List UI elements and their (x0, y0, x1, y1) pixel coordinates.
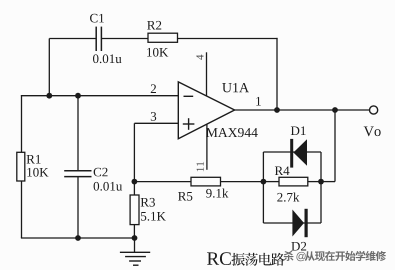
wire: R2 to feedback corner (178, 38, 278, 40)
resistor R2 (148, 33, 178, 42)
op-amp inverting (-) mark (184, 95, 194, 97)
resistor R5 (191, 177, 221, 186)
wire: node to R5 (134, 181, 191, 183)
ground (134, 238, 136, 252)
pin 4 number (rotated) (196, 55, 203, 60)
junction dot: top drop / pin2 net (46, 93, 52, 99)
wire: connector vertical to output net (334, 110, 336, 182)
wire: left vertical drop from top wire (48, 39, 50, 96)
watermark: @ (296, 252, 305, 261)
wire: R4 to loop right (308, 181, 321, 183)
resistor R1 (17, 152, 25, 181)
wire: loop right vertical (320, 152, 322, 223)
resistor R3 (130, 195, 139, 225)
watermark: 杀 (284, 251, 294, 261)
wire: output net to Vo terminal (235, 109, 370, 111)
junction dot: output / loop connector (332, 107, 338, 113)
wire: loop middle left to R4 (263, 181, 279, 183)
wire: bottom rail (21, 237, 135, 239)
wire: C2 branch lower (77, 177, 79, 238)
diode D2 (292, 210, 304, 237)
wire: R5 to loop left node (221, 181, 264, 183)
wire: R3 bottom to ground node (133, 225, 135, 238)
label Vo (364, 127, 381, 137)
junction dot: loop left node (261, 179, 267, 185)
watermark: 从现在开始学维修 (305, 251, 315, 261)
wire: pin-3 vertical to node (133, 123, 135, 181)
wire: left rail above R1 (21, 95, 23, 152)
wire: loop right node to connector (321, 181, 335, 183)
label MAX944 (206, 128, 258, 137)
diode D1 (290, 139, 293, 168)
junction dot: C2 / bottom rail (75, 235, 81, 241)
pin 2 number (151, 84, 156, 93)
junction dot: C2 / pin2 net (75, 93, 81, 99)
wire: loop left vertical (262, 152, 264, 223)
op-amp pin 11 stub (206, 124, 208, 170)
wire: loop top branch (D1) (263, 151, 321, 153)
junction dot: pin3 / R5 / R3 node (132, 179, 138, 185)
resistor R4 (279, 177, 308, 186)
pin 3 number (151, 112, 156, 121)
wire: loop bottom branch (D2) (263, 222, 321, 224)
op-amp non-inverting (+) mark (183, 123, 195, 125)
caption: RC oscillator title (RC) (207, 252, 231, 265)
wire: node to R3 top (133, 182, 135, 195)
op-amp pin 4 stub (206, 52, 208, 96)
capacitor C1 (95, 27, 97, 51)
wire: C1 to R2 (101, 38, 148, 40)
wire: inverting input net (pin 2) (21, 95, 178, 97)
pin 1 number (256, 97, 261, 106)
capacitor C2 (64, 170, 91, 172)
wire: feedback vertical drop to output (276, 38, 278, 110)
wire: top-left horizontal to C1 (49, 38, 96, 40)
op-amp U1A triangle (178, 82, 234, 139)
junction dot: R3 bottom / ground (132, 235, 138, 241)
junction dot: loop right node (318, 179, 324, 185)
output terminal Vo (open circle) (370, 106, 378, 114)
wire: left rail below R1 (21, 181, 23, 238)
label U1A (222, 83, 249, 92)
caption: title hanzi 振荡电路 (232, 253, 245, 266)
wire: non-inverting input net (pin 3) (134, 122, 178, 124)
junction dot: feedback / output (274, 107, 280, 113)
wire: C2 branch upper (77, 96, 79, 171)
pin 11 number (rotated) (197, 162, 204, 171)
